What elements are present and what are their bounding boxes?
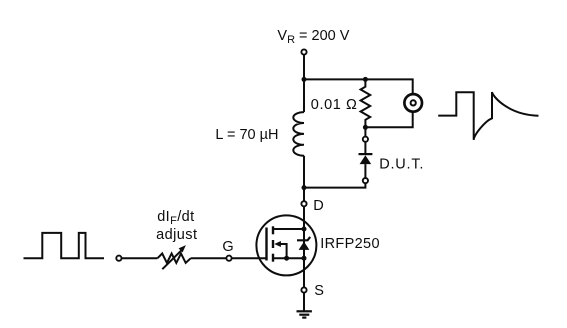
svg-text:adjust: adjust: [156, 227, 197, 243]
svg-text:IRFP250: IRFP250: [320, 236, 380, 252]
wire: DUT top terminal to diode: [364, 142, 366, 155]
MOSFET Q1 gate bar: [265, 228, 267, 261]
MOSFET Q1 source stub: [273, 257, 304, 259]
wire: scope bottom to resistor bottom: [365, 113, 412, 128]
junction: top of 0.01 ohm resistor: [363, 77, 368, 82]
MOSFET Q1 channel middle segment: [272, 240, 274, 248]
input terminal: [116, 256, 121, 261]
MOSFET Q1 body diode triangle: [299, 242, 310, 250]
input drive pulse waveform: [24, 233, 105, 258]
DUT bottom terminal: [363, 178, 368, 183]
wire: inductor to drain node: [303, 156, 305, 312]
top wire: supply node to scope branch: [304, 79, 413, 93]
svg-text:L = 70 µH: L = 70 µH: [215, 127, 278, 143]
junction: bottom of 0.01 ohm resistor: [363, 125, 368, 130]
wire: node G to MOSFET gate: [231, 257, 267, 259]
diode D.U.T. cathode bar: [359, 153, 373, 155]
output recovery waveform: [438, 92, 538, 140]
wire: resistor bottom junction to DUT: [364, 127, 366, 139]
MOSFET Q1 body connection arrow: [274, 241, 286, 258]
wire: diode to DUT bottom terminal: [364, 164, 366, 178]
node G terminal: [226, 256, 231, 261]
diode D.U.T. triangle: [360, 155, 372, 164]
junction: supply node on main line: [302, 77, 307, 82]
junction: source stub to main line: [302, 256, 307, 261]
MOSFET Q1 drain stub: [273, 228, 304, 230]
MOSFET Q1 IRFP250 body circle: [256, 215, 316, 275]
wire: DUT bottom to drain node: [304, 183, 365, 187]
wire: variable resistor to node G: [191, 257, 227, 259]
MOSFET Q1 channel bottom segment: [272, 254, 274, 262]
svg-text:S: S: [314, 283, 324, 299]
DUT top terminal: [363, 137, 368, 142]
node S terminal: [301, 287, 306, 292]
resistor R2 0.01 ohm: [361, 79, 371, 127]
wire: VR terminal down to inductor: [303, 55, 305, 113]
variable resistor R1 (dIF/dt adjust) zigzag: [158, 254, 191, 263]
svg-text:G: G: [222, 239, 233, 255]
svg-text:0.01 Ω: 0.01 Ω: [311, 97, 358, 113]
node D terminal: [301, 201, 306, 206]
VR supply terminal: [301, 49, 306, 54]
scope probe: [404, 94, 422, 112]
inductor L1: [293, 112, 304, 156]
MOSFET Q1 body diode cathode bar: [297, 237, 310, 240]
wire: input terminal to variable resistor: [120, 257, 158, 259]
svg-text:D.U.T.: D.U.T.: [379, 157, 424, 173]
junction: drain node on main line: [302, 185, 307, 190]
junction: drain stub to main line: [302, 227, 307, 232]
MOSFET Q1 channel top segment: [272, 226, 274, 234]
junction: body arrow to source stub: [284, 256, 289, 261]
ground: [297, 311, 312, 317]
variable resistor R1 arrow: [162, 245, 186, 269]
svg-text:D: D: [313, 198, 323, 214]
